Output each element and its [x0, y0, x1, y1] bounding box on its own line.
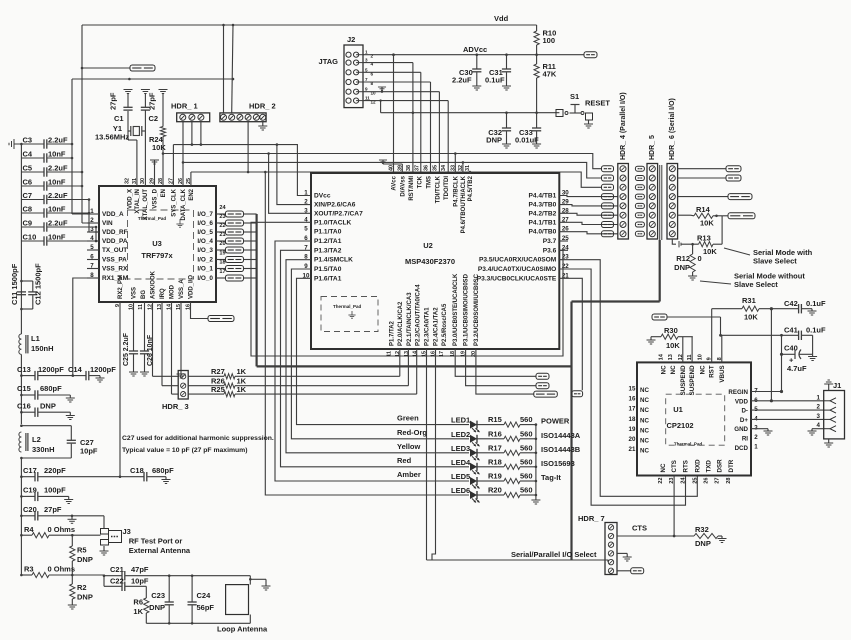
svg-text:SUSPEND: SUSPEND: [680, 365, 687, 395]
svg-text:TDO/TDI: TDO/TDI: [444, 176, 450, 200]
svg-text:C25 2.2uF: C25 2.2uF: [123, 332, 130, 366]
svg-text:150nH: 150nH: [31, 344, 54, 353]
svg-text:NC: NC: [640, 438, 649, 445]
svg-text:DNP: DNP: [674, 263, 690, 272]
svg-text:20: 20: [219, 241, 225, 247]
svg-text:DSR: DSR: [717, 459, 724, 473]
svg-text:100pF: 100pF: [44, 486, 66, 495]
svg-text:VIN: VIN: [102, 220, 113, 227]
svg-text:25: 25: [692, 478, 698, 484]
svg-text:10K: 10K: [703, 247, 717, 256]
svg-text:C5: C5: [23, 164, 33, 173]
svg-text:R16: R16: [488, 429, 502, 438]
svg-text:5: 5: [365, 67, 368, 72]
svg-text:16: 16: [629, 396, 636, 403]
svg-text:R32: R32: [695, 525, 709, 534]
svg-text:36: 36: [423, 165, 429, 171]
svg-text:26: 26: [704, 478, 710, 484]
svg-text:C41: C41: [784, 326, 798, 335]
svg-text:TRF797x: TRF797x: [141, 251, 173, 260]
svg-text:560: 560: [520, 486, 533, 495]
svg-text:Loop Antenna: Loop Antenna: [217, 625, 268, 634]
svg-text:RF Test Port or: RF Test Port or: [129, 537, 183, 546]
svg-text:31: 31: [465, 165, 471, 171]
svg-text:R13: R13: [697, 234, 711, 243]
svg-text:C13: C13: [17, 365, 31, 374]
svg-text:680pF: 680pF: [152, 466, 174, 475]
svg-text:EN: EN: [161, 189, 167, 197]
svg-text:32: 32: [124, 178, 130, 184]
svg-text:C24: C24: [197, 591, 212, 600]
svg-text:External Antenna: External Antenna: [129, 546, 191, 555]
svg-text:Amber: Amber: [397, 470, 421, 479]
svg-text:J2: J2: [347, 35, 355, 44]
svg-text:VDD: VDD: [735, 398, 749, 405]
svg-text:R14: R14: [696, 205, 711, 214]
svg-text:1: 1: [817, 394, 821, 401]
svg-text:D-: D-: [741, 408, 748, 415]
svg-text:P1.1/TA0: P1.1/TA0: [314, 229, 342, 236]
svg-text:C6: C6: [23, 178, 33, 187]
svg-text:27pF: 27pF: [44, 505, 62, 514]
svg-text:I/O_7: I/O_7: [197, 211, 213, 218]
svg-text:C15: C15: [17, 384, 31, 393]
svg-text:10nF: 10nF: [48, 150, 66, 159]
svg-text:DNP: DNP: [149, 603, 165, 612]
svg-text:C9: C9: [23, 219, 33, 228]
svg-text:LED5: LED5: [451, 472, 470, 481]
svg-text:Yellow: Yellow: [397, 442, 421, 451]
svg-text:18: 18: [219, 260, 225, 266]
svg-text:U2: U2: [423, 241, 433, 250]
svg-text:0.1uF: 0.1uF: [806, 326, 826, 335]
svg-text:HDR_ 7: HDR_ 7: [578, 514, 605, 523]
svg-text:2: 2: [304, 199, 308, 206]
svg-text:20: 20: [629, 436, 636, 443]
svg-text:C14: C14: [68, 365, 83, 374]
svg-text:7: 7: [365, 77, 368, 82]
svg-text:RTS: RTS: [683, 460, 690, 472]
svg-text:P3.4/UCA0TX/UCA0SIMO: P3.4/UCA0TX/UCA0SIMO: [478, 266, 556, 273]
svg-text:EN2: EN2: [189, 188, 195, 200]
svg-text:4.7uF: 4.7uF: [787, 364, 807, 373]
svg-text:GND: GND: [734, 426, 748, 433]
svg-text:Red: Red: [397, 456, 412, 465]
svg-text:HDR_ 2: HDR_ 2: [249, 102, 276, 111]
svg-text:38: 38: [406, 165, 412, 171]
svg-text:1200pF: 1200pF: [38, 365, 64, 374]
svg-text:10K: 10K: [666, 341, 680, 350]
svg-text:TMS: TMS: [426, 176, 432, 189]
svg-text:VBUS: VBUS: [719, 365, 726, 382]
svg-text:NC: NC: [661, 365, 668, 374]
svg-text:2: 2: [754, 434, 758, 441]
svg-text:24: 24: [681, 477, 687, 484]
svg-text:C2: C2: [149, 114, 159, 123]
svg-text:P1.6/TA1: P1.6/TA1: [314, 275, 342, 282]
svg-text:P1.3/TA2: P1.3/TA2: [314, 247, 342, 254]
svg-text:56pF: 56pF: [197, 603, 215, 612]
svg-text:560: 560: [520, 415, 533, 424]
svg-text:Typical value = 10 pF (27 pF m: Typical value = 10 pF (27 pF maximum): [122, 447, 247, 454]
svg-text:P1.2/TA1: P1.2/TA1: [314, 238, 342, 245]
svg-text:2.2uF: 2.2uF: [48, 164, 68, 173]
svg-text:47K: 47K: [543, 70, 557, 79]
svg-text:Slave Select: Slave Select: [753, 257, 797, 266]
svg-text:D+: D+: [740, 417, 748, 424]
svg-text:DCD: DCD: [735, 445, 749, 452]
svg-text:XTAL_OUT: XTAL_OUT: [143, 189, 149, 221]
svg-text:LED4: LED4: [451, 458, 471, 467]
svg-text:P3.3/UCB0CLK/UCA0STE: P3.3/UCB0CLK/UCA0STE: [477, 275, 557, 282]
svg-text:15: 15: [629, 386, 636, 393]
svg-text:Vdd: Vdd: [494, 14, 509, 23]
svg-text:VSS_PA: VSS_PA: [102, 257, 127, 264]
svg-text:23: 23: [219, 214, 225, 220]
svg-text:R6: R6: [133, 598, 143, 607]
svg-text:10nF: 10nF: [48, 233, 66, 242]
svg-text:SYS_CLK: SYS_CLK: [171, 188, 177, 216]
svg-text:0.1uF: 0.1uF: [806, 299, 826, 308]
svg-text:R17: R17: [488, 443, 502, 452]
svg-text:P3.2/UCB0SOMI/UCB0SC: P3.2/UCB0SOMI/UCB0SC: [474, 273, 480, 346]
svg-text:C1: C1: [114, 114, 124, 123]
svg-text:22: 22: [658, 478, 664, 484]
svg-text:10K: 10K: [152, 143, 166, 152]
svg-text:2.2uF: 2.2uF: [48, 219, 68, 228]
svg-text:C7: C7: [23, 191, 33, 200]
svg-text:ASK/OOK: ASK/OOK: [151, 270, 157, 299]
svg-text:P2.5/Rosc/CA5: P2.5/Rosc/CA5: [442, 303, 448, 346]
svg-text:MOD: MOD: [170, 284, 176, 299]
svg-text:DNP: DNP: [695, 539, 711, 548]
svg-text:J3: J3: [123, 527, 131, 536]
svg-text:POWER: POWER: [541, 417, 570, 426]
svg-text:100: 100: [543, 36, 556, 45]
svg-text:10nF: 10nF: [48, 178, 66, 187]
svg-text:P3.7: P3.7: [543, 238, 557, 245]
svg-text:21: 21: [219, 232, 225, 238]
svg-text:0 Ohms: 0 Ohms: [48, 525, 76, 534]
svg-text:2: 2: [817, 404, 821, 411]
svg-text:R18: R18: [488, 457, 502, 466]
svg-text:P1.0/TACLK: P1.0/TACLK: [314, 219, 351, 226]
svg-text:NC: NC: [699, 365, 706, 374]
svg-text:19: 19: [219, 251, 225, 257]
svg-text:11: 11: [138, 304, 144, 310]
svg-text:SUSPEND: SUSPEND: [689, 365, 696, 395]
svg-text:I/O_5: I/O_5: [197, 229, 213, 236]
svg-text:C27 used for additional harmon: C27 used for additional harmonic suppres…: [122, 435, 274, 442]
svg-text:330nH: 330nH: [32, 445, 55, 454]
svg-text:560: 560: [520, 443, 533, 452]
svg-text:LED2: LED2: [451, 430, 470, 439]
svg-text:680pF: 680pF: [40, 384, 62, 393]
svg-text:CP2102: CP2102: [666, 421, 693, 430]
svg-text:R20: R20: [488, 486, 502, 495]
svg-text:1K: 1K: [237, 367, 247, 376]
svg-text:13: 13: [668, 354, 674, 360]
svg-text:Tag-It: Tag-It: [541, 473, 561, 482]
svg-text:DTR: DTR: [728, 459, 735, 472]
svg-text:VSS: VSS: [132, 287, 138, 299]
svg-text:AVcc: AVcc: [391, 175, 397, 190]
svg-text:LED6: LED6: [451, 486, 470, 495]
svg-text:HDR_ 4 (Parallel I/O): HDR_ 4 (Parallel I/O): [620, 92, 627, 160]
svg-text:C3: C3: [23, 136, 33, 145]
svg-text:DNP: DNP: [40, 402, 56, 411]
svg-text:27: 27: [715, 478, 721, 484]
svg-text:C23: C23: [151, 591, 165, 600]
svg-text:3: 3: [304, 207, 308, 214]
svg-text:1: 1: [365, 50, 368, 55]
svg-text:C16: C16: [17, 402, 31, 411]
svg-text:TDI/TCLK: TDI/TCLK: [435, 175, 441, 203]
svg-text:DNP: DNP: [77, 593, 93, 602]
svg-text:Green: Green: [397, 414, 419, 423]
svg-text:P4.2/TB2: P4.2/TB2: [528, 210, 556, 217]
svg-text:Slave Select: Slave Select: [734, 280, 778, 289]
svg-text:NC: NC: [640, 397, 649, 404]
svg-text:28: 28: [726, 478, 732, 484]
svg-text:P4.3/TB0: P4.3/TB0: [528, 202, 556, 209]
svg-text:VDD_RF: VDD_RF: [102, 229, 128, 236]
svg-text:P2.2/CAOUT/TA0/CA4: P2.2/CAOUT/TA0/CA4: [416, 284, 422, 346]
svg-text:17: 17: [629, 406, 636, 413]
svg-text:ISO14443B: ISO14443B: [541, 445, 581, 454]
svg-text:13.56MHz: 13.56MHz: [95, 133, 129, 142]
svg-text:560: 560: [520, 457, 533, 466]
svg-text:BG: BG: [141, 290, 147, 299]
svg-text:1: 1: [304, 190, 308, 197]
svg-text:560: 560: [520, 472, 533, 481]
svg-text:U3: U3: [152, 239, 162, 248]
svg-text:TXD: TXD: [706, 460, 713, 473]
svg-text:Thermal_Pad: Thermal_Pad: [674, 442, 703, 447]
svg-text:9: 9: [365, 87, 368, 92]
svg-text:I/O_1: I/O_1: [197, 266, 213, 273]
svg-text:CTS: CTS: [671, 460, 678, 472]
svg-text:P3.5/UCA0RX/UCA0SOM: P3.5/UCA0RX/UCA0SOM: [479, 257, 557, 264]
svg-text:40: 40: [388, 165, 394, 171]
svg-text:S1: S1: [570, 92, 579, 101]
svg-text:P4.5/TB2: P4.5/TB2: [468, 175, 474, 201]
svg-text:21: 21: [629, 446, 636, 453]
svg-text:R5: R5: [77, 546, 87, 555]
svg-text:LED3: LED3: [451, 444, 470, 453]
svg-text:P4.1/TB1: P4.1/TB1: [528, 219, 556, 226]
svg-text:U1: U1: [673, 405, 683, 414]
svg-text:VSS_RX: VSS_RX: [102, 266, 128, 273]
svg-text:C10: C10: [23, 233, 37, 242]
svg-text:2.2uF: 2.2uF: [452, 76, 472, 85]
svg-text:P4.7/BCLK: P4.7/BCLK: [453, 175, 459, 206]
svg-text:VDD_PA: VDD_PA: [102, 238, 128, 245]
svg-text:NC: NC: [660, 463, 667, 472]
svg-text:RX1_AM: RX1_AM: [102, 275, 128, 282]
svg-text:P3.6: P3.6: [543, 247, 557, 254]
svg-text:I/O_4: I/O_4: [197, 238, 213, 245]
svg-text:VDD_X: VDD_X: [127, 189, 133, 209]
svg-text:RESET: RESET: [585, 99, 610, 108]
svg-text:4: 4: [817, 422, 821, 429]
svg-text:C11 1500pF: C11 1500pF: [10, 263, 19, 305]
svg-text:27pF: 27pF: [148, 92, 157, 110]
svg-text:17: 17: [219, 269, 225, 275]
svg-text:0.1uF: 0.1uF: [485, 76, 505, 85]
svg-text:11: 11: [365, 96, 370, 101]
svg-text:JTAG: JTAG: [319, 57, 339, 66]
svg-text:24: 24: [219, 205, 226, 211]
svg-text:MSP430F2370: MSP430F2370: [405, 257, 455, 266]
svg-text:3: 3: [365, 58, 368, 63]
svg-text:NC: NC: [640, 417, 649, 424]
svg-text:RX2_PM: RX2_PM: [118, 275, 124, 299]
svg-text:47pF: 47pF: [131, 565, 149, 574]
svg-text:NC: NC: [640, 427, 649, 434]
svg-text:L1: L1: [31, 334, 40, 343]
svg-text:14: 14: [659, 353, 665, 360]
svg-text:2.2uF: 2.2uF: [48, 191, 68, 200]
svg-text:35: 35: [432, 165, 438, 171]
svg-text:5: 5: [304, 226, 308, 233]
svg-text:ISO14443A: ISO14443A: [541, 431, 581, 440]
svg-text:I/O_3: I/O_3: [197, 247, 213, 254]
svg-text:D/AVss: D/AVss: [400, 175, 406, 196]
svg-text:0.01uF: 0.01uF: [515, 136, 539, 145]
svg-text:RI: RI: [742, 436, 748, 443]
svg-text:2: 2: [371, 54, 374, 59]
svg-text:TCK: TCK: [418, 175, 424, 188]
svg-text:REGIN: REGIN: [728, 389, 748, 396]
svg-text:R30: R30: [664, 326, 678, 335]
svg-text:C18: C18: [130, 466, 144, 475]
svg-text:RST: RST: [709, 365, 716, 378]
svg-text:P4.4/TB1: P4.4/TB1: [528, 193, 556, 200]
svg-text:P4.6/TBOUTH/ACLK: P4.6/TBOUTH/ACLK: [461, 175, 467, 233]
svg-text:0: 0: [698, 254, 702, 263]
svg-text:DVcc: DVcc: [314, 193, 331, 200]
svg-text:220pF: 220pF: [44, 466, 66, 475]
svg-text:R19: R19: [488, 472, 502, 481]
svg-text:XTAL_IN: XTAL_IN: [135, 189, 141, 214]
svg-text:R15: R15: [488, 415, 502, 424]
svg-text:1: 1: [754, 443, 758, 450]
svg-text:VSS_A: VSS_A: [179, 279, 185, 299]
svg-text:37: 37: [415, 165, 421, 171]
svg-text:XOUT/P2.7/CA7: XOUT/P2.7/CA7: [314, 210, 363, 217]
svg-text:IRQ: IRQ: [160, 288, 166, 299]
svg-text:0 Ohms: 0 Ohms: [48, 565, 76, 574]
svg-text:C4: C4: [23, 150, 33, 159]
svg-text:18: 18: [629, 416, 636, 423]
svg-text:10pF: 10pF: [80, 447, 98, 456]
svg-text:10pF: 10pF: [131, 577, 149, 586]
svg-text:10K: 10K: [744, 313, 758, 322]
svg-text:1200pF: 1200pF: [90, 365, 116, 374]
svg-text:27pF: 27pF: [109, 92, 118, 110]
svg-text:C40: C40: [784, 344, 798, 353]
svg-text:C8: C8: [23, 205, 33, 214]
svg-text:P4.0/TB0: P4.0/TB0: [528, 229, 556, 236]
svg-text:22: 22: [219, 223, 225, 229]
svg-text:NC: NC: [640, 407, 649, 414]
svg-text:R2: R2: [77, 583, 87, 592]
svg-text:I/O_6: I/O_6: [197, 220, 213, 227]
svg-text:TX_OUT: TX_OUT: [102, 247, 127, 254]
svg-text:ADVcc: ADVcc: [463, 45, 487, 54]
svg-text:L2: L2: [32, 435, 41, 444]
svg-text:HDR_ 5: HDR_ 5: [649, 135, 656, 160]
svg-text:1K: 1K: [133, 607, 143, 616]
svg-text:CTS: CTS: [632, 524, 647, 533]
svg-text:2.2uF: 2.2uF: [48, 136, 68, 145]
svg-text:J1: J1: [833, 381, 841, 390]
svg-text:10nF: 10nF: [48, 205, 66, 214]
svg-text:3: 3: [817, 413, 821, 420]
svg-text:Red-Org: Red-Org: [397, 428, 427, 437]
svg-text:C12 1500pF: C12 1500pF: [34, 263, 43, 305]
svg-text:VDD_I/O: VDD_I/O: [189, 275, 195, 299]
svg-text:10: 10: [697, 354, 703, 360]
svg-text:R12: R12: [676, 254, 690, 263]
svg-text:NC: NC: [640, 448, 649, 455]
svg-text:C42: C42: [784, 299, 798, 308]
svg-text:34: 34: [441, 165, 447, 171]
svg-text:R31: R31: [742, 296, 756, 305]
svg-text:DATA_CLK: DATA_CLK: [181, 188, 187, 220]
svg-text:560: 560: [520, 429, 533, 438]
svg-text:R3: R3: [24, 565, 34, 574]
svg-text:1K: 1K: [237, 385, 247, 394]
svg-text:P1.4/SMCLK: P1.4/SMCLK: [314, 257, 353, 264]
svg-text:NC: NC: [670, 365, 677, 374]
svg-text:P2.3/CA0/TA1: P2.3/CA0/TA1: [425, 307, 431, 346]
svg-text:LED1: LED1: [451, 416, 470, 425]
svg-text:10K: 10K: [700, 219, 714, 228]
svg-text:R27: R27: [211, 367, 225, 376]
svg-text:P2.4/CA1/TA2: P2.4/CA1/TA2: [434, 307, 440, 346]
svg-text:R25: R25: [211, 385, 225, 394]
svg-text:Serial/Parallel I/O Select: Serial/Parallel I/O Select: [511, 550, 597, 559]
svg-text:P2.1/TAINCLK/CA3: P2.1/TAINCLK/CA3: [407, 292, 413, 346]
svg-text:RST/NMI: RST/NMI: [409, 176, 415, 201]
svg-text:XIN/P2.6/CA6: XIN/P2.6/CA6: [314, 202, 356, 209]
svg-text:19: 19: [629, 426, 636, 433]
svg-text:ISO15693: ISO15693: [541, 459, 575, 468]
svg-text:VDD_A: VDD_A: [102, 211, 124, 218]
svg-text:P1.5/TA0: P1.5/TA0: [314, 266, 342, 273]
svg-text:HDR_ 6 (Serial I/O): HDR_ 6 (Serial I/O): [669, 98, 676, 160]
svg-text:I/O_0: I/O_0: [197, 275, 213, 282]
svg-text:DNP: DNP: [77, 555, 93, 564]
svg-text:Thermal_Pad: Thermal_Pad: [333, 304, 362, 309]
svg-text:NC: NC: [640, 387, 649, 394]
svg-text:DNP: DNP: [486, 136, 502, 145]
svg-text:VSS_D: VSS_D: [153, 188, 159, 208]
svg-text:RXD: RXD: [694, 459, 701, 473]
svg-text:P2.0/ACLK/CA2: P2.0/ACLK/CA2: [398, 301, 404, 346]
svg-text:P3.1/UCB0SIMO/UCB0SD: P3.1/UCB0SIMO/UCB0SD: [464, 273, 470, 346]
svg-text:HDR_ 1: HDR_ 1: [171, 102, 198, 111]
svg-text:P3.0/UCB0STE/UCA0CLK: P3.0/UCB0STE/UCA0CLK: [453, 273, 459, 346]
svg-text:P1.7/TA2: P1.7/TA2: [390, 320, 396, 346]
svg-text:HDR_ 3: HDR_ 3: [162, 402, 189, 411]
svg-text:I/O_2: I/O_2: [197, 257, 213, 264]
